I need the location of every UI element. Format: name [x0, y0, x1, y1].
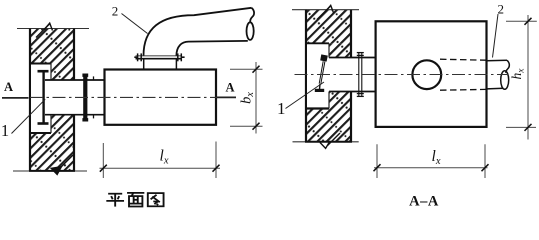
平	[106, 194, 124, 207]
fan inlet flange (black bar)	[83, 74, 87, 122]
end break: hook	[250, 8, 254, 23]
centerline (plan)	[30, 96, 217, 98]
leader for label 1 (plan)	[12, 99, 46, 133]
l_x ticks	[100, 165, 220, 172]
dimension b_x	[230, 62, 263, 134]
curved duct 2 (elbow, plan)	[144, 8, 255, 56]
svg-text:1: 1	[277, 99, 286, 118]
svg-text:A: A	[4, 80, 13, 94]
elbow riser left side	[143, 59, 145, 70]
wall opening diagonal arrow (top)	[36, 23, 53, 37]
wall hatched area below opening (A-A)	[306, 109, 329, 142]
wall hatched area right of opening, below duct	[51, 115, 74, 133]
wall hatched area below opening	[30, 133, 74, 171]
title 平面图 (drawn strokes)	[106, 193, 163, 207]
inner curve	[176, 41, 247, 56]
round duct circle (A-A)	[412, 60, 441, 89]
面	[127, 193, 144, 207]
flange piece 1 section (A-A)	[315, 54, 328, 92]
wall left edge	[29, 29, 31, 172]
h_x ticks	[525, 18, 532, 131]
wall diagonal arrow top (A-A)	[317, 5, 334, 19]
duct through wall: bottom line	[45, 114, 105, 116]
leader for label 2 (A-A)	[493, 14, 499, 58]
centerline (A-A)	[295, 74, 509, 76]
wall bottom edge line (A-A)	[293, 141, 359, 143]
leader for label 1 (A-A)	[286, 82, 325, 109]
wall top edge line	[17, 28, 89, 30]
outer curve	[144, 8, 252, 56]
wall right edge upper (A-A)	[350, 10, 352, 58]
section line A left	[2, 97, 29, 99]
svg-text:1: 1	[1, 121, 9, 140]
wall hatched area right of opening, above duct	[51, 64, 74, 81]
svg-text:A: A	[225, 80, 234, 94]
b_x ticks	[253, 66, 260, 130]
hidden lines of round duct inside box (A-A)	[440, 59, 486, 90]
label b_x (rotated)	[239, 92, 257, 104]
wall bottom edge line	[13, 170, 87, 172]
l_x ticks (A-A)	[374, 164, 489, 171]
end break: ellipse	[247, 22, 254, 40]
图	[148, 193, 164, 206]
round duct outside box (A-A)	[487, 60, 510, 89]
wall right edge lower segment	[73, 115, 75, 171]
wall hatched area above opening (A-A)	[306, 10, 351, 44]
svg-text:2: 2	[498, 1, 505, 16]
wall hatched area right of opening below duct (A-A)	[329, 92, 351, 142]
inlet collar tabs on box	[93, 76, 95, 80]
leader for label 2 (plan)	[122, 14, 148, 34]
wall opening (white) with edges (A-A)	[306, 43, 329, 108]
dimension h_x (A-A)	[506, 15, 537, 140]
svg-text:A–A: A–A	[409, 194, 439, 210]
wall diagonal arrow bottom (A-A)	[320, 133, 340, 148]
label h_x (rotated)	[509, 68, 526, 80]
wall hatched area right of opening above duct (A-A)	[329, 43, 351, 57]
fan box (plan)	[105, 70, 217, 125]
dimension l_x (A-A)	[374, 144, 488, 178]
elbow flange (double line)	[136, 56, 182, 59]
dimension l_x (plan)	[100, 142, 221, 179]
wall opening (white) with edges	[30, 64, 51, 134]
duct through wall top line (A-A)	[329, 57, 376, 59]
elbow flange bolt right	[178, 53, 185, 61]
fan box (A-A)	[376, 21, 487, 127]
flange plate 1 (I-profile in opening)	[38, 71, 49, 123]
wall opening diagonal arrow (bottom, filled)	[51, 155, 73, 175]
elbow riser right side	[175, 59, 177, 70]
wall right edge upper segment	[73, 29, 75, 81]
wall hatched area above opening	[30, 29, 74, 64]
wall left edge (A-A)	[305, 10, 307, 142]
wall bottom edge thick segment	[29, 170, 75, 172]
duct flange pair (A-A)	[359, 53, 362, 97]
wall right edge lower (A-A)	[350, 92, 352, 142]
wall top edge line (A-A)	[292, 9, 359, 11]
svg-text:2: 2	[112, 3, 119, 18]
section line A right	[217, 96, 236, 98]
wall bottom edge thick segment (A-A)	[305, 141, 352, 143]
elbow flange bolt left	[134, 53, 141, 61]
flange bolt marks (A-A)	[357, 53, 364, 97]
duct through wall: top line	[45, 79, 105, 81]
duct through wall bottom line (A-A)	[329, 91, 376, 93]
